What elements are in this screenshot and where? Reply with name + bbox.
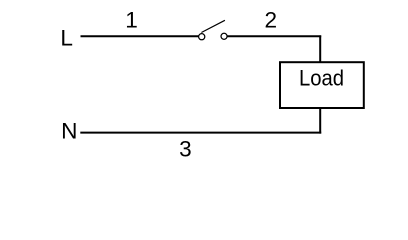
load box [280, 62, 364, 108]
wire 3: neutral return (bottom horizontal) [80, 132, 321, 134]
wire 2: switch right contact to corner [227, 35, 321, 37]
svg-text:2: 2 [264, 8, 277, 33]
switch SW lever (open blade) [201, 20, 225, 32]
svg-text:L: L [60, 25, 73, 50]
svg-text:Load: Load [299, 66, 344, 91]
wire 1: L to switch left contact [81, 35, 199, 37]
switch SW right contact circle [221, 33, 227, 39]
svg-text:1: 1 [125, 8, 138, 33]
svg-text:N: N [61, 119, 77, 144]
svg-text:3: 3 [179, 136, 192, 161]
switch SW left contact circle [199, 34, 205, 40]
wire 3: Load bottom drop down [319, 108, 321, 134]
wire 2: corner drop down to Load top [319, 35, 321, 62]
